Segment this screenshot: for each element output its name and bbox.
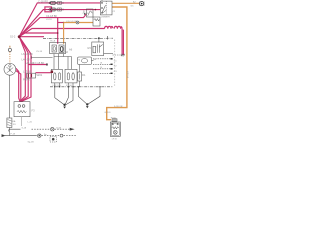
svg-text:A6: A6 [69, 47, 73, 51]
svg-text:PARK: PARK [23, 78, 30, 82]
svg-text:C3-18: C3-18 [83, 13, 90, 15]
svg-text:L20-14: L20-14 [126, 71, 128, 79]
svg-text:G-1B: G-1B [56, 128, 62, 130]
svg-text:L-31: L-31 [28, 122, 33, 124]
svg-text:S-18: S-18 [22, 128, 27, 130]
svg-text:LP-B: LP-B [112, 139, 117, 141]
svg-text:18: 18 [100, 63, 102, 65]
svg-text:RT HL: RT HL [66, 85, 73, 87]
svg-text:L20-14 OR: L20-14 OR [66, 21, 77, 23]
svg-text:30A: 30A [12, 120, 16, 123]
svg-text:SJ-2: SJ-2 [10, 34, 16, 38]
svg-text:C4-18 BK: C4-18 BK [46, 14, 58, 18]
svg-text:9-1B OR: 9-1B OR [114, 106, 123, 108]
svg-text:G5: G5 [87, 46, 91, 50]
svg-text:16: 16 [100, 67, 102, 69]
svg-text:G-201: G-201 [105, 112, 112, 114]
svg-text:LEFT HL: LEFT HL [53, 85, 62, 87]
svg-text:L6-18 RD: L6-18 RD [22, 52, 33, 56]
svg-text:HL-B: HL-B [50, 41, 56, 43]
svg-text:C-18 RD: C-18 RD [38, 0, 48, 4]
svg-text:HD-SW: HD-SW [26, 61, 35, 65]
svg-text:B2: B2 [65, 50, 69, 54]
svg-text:D1: D1 [82, 73, 86, 77]
svg-text:DIMMER: DIMMER [101, 16, 110, 18]
svg-text:L9-18: L9-18 [46, 19, 52, 21]
svg-text:L13-18: L13-18 [23, 70, 32, 74]
svg-text:C5-18: C5-18 [36, 51, 43, 53]
svg-text:L44-18: L44-18 [22, 57, 31, 61]
svg-text:L7-18 BK: L7-18 BK [34, 61, 45, 65]
svg-text:F-18: F-18 [11, 134, 16, 136]
svg-text:FOG: FOG [111, 117, 116, 119]
svg-text:Sp-1B: Sp-1B [28, 142, 35, 144]
svg-text:S201: S201 [36, 73, 43, 77]
